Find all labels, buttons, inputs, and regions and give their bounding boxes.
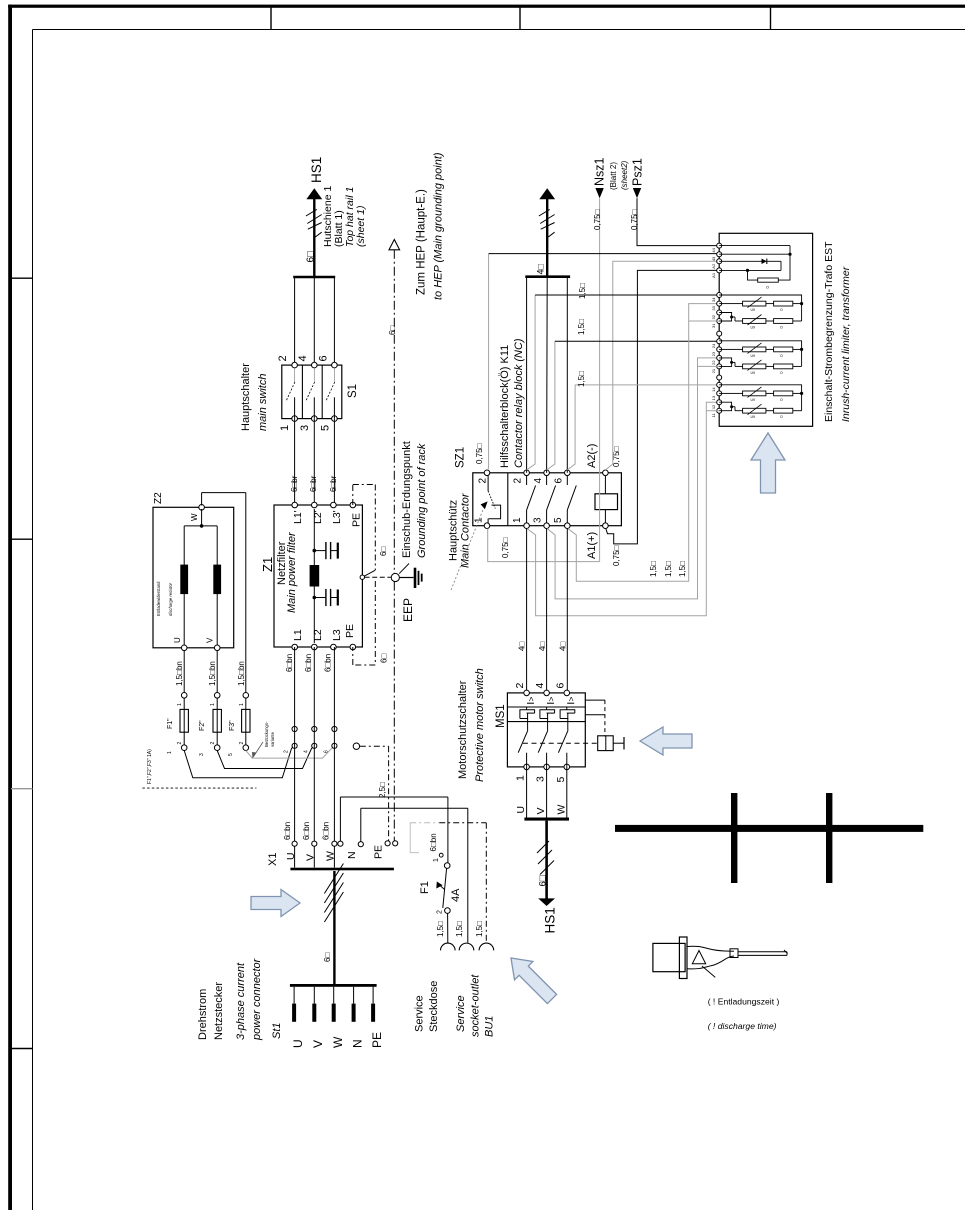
svg-text:2: 2 — [284, 750, 290, 753]
svg-text:4□: 4□ — [538, 642, 547, 651]
svg-text:U: U — [515, 806, 527, 814]
svg-text:U: U — [173, 637, 182, 643]
svg-text:Drehstrom: Drehstrom — [197, 989, 209, 1040]
svg-text:1,5□: 1,5□ — [664, 561, 673, 577]
svg-text:6□: 6□ — [379, 547, 388, 556]
svg-text:F1": F1" — [167, 718, 174, 729]
svg-text:>: > — [546, 697, 556, 702]
svg-text:6: 6 — [554, 478, 565, 484]
svg-text:44: 44 — [711, 247, 716, 252]
svg-text:22: 22 — [711, 360, 716, 365]
svg-text:2: 2 — [513, 478, 524, 484]
svg-text:5: 5 — [555, 777, 567, 783]
svg-text:3-phase current: 3-phase current — [235, 962, 247, 1040]
svg-text:Contactor relay block (NC): Contactor relay block (NC) — [513, 338, 525, 468]
svg-text:1,5□: 1,5□ — [577, 371, 586, 387]
svg-text:6□bn: 6□bn — [302, 822, 311, 840]
svg-text:12: 12 — [711, 404, 716, 409]
svg-text:St1: St1 — [271, 1022, 283, 1039]
svg-text:1,5□bn: 1,5□bn — [237, 661, 246, 686]
svg-text:A2(-): A2(-) — [586, 444, 598, 468]
svg-text:O: O — [766, 286, 769, 290]
svg-text:6□bn: 6□bn — [429, 833, 438, 851]
svg-text:Service: Service — [455, 995, 467, 1032]
svg-text:Hauptschütz: Hauptschütz — [448, 500, 460, 561]
svg-text:socket-outlet: socket-outlet — [470, 974, 482, 1037]
svg-text:SZ1: SZ1 — [455, 447, 467, 468]
svg-text:U9: U9 — [751, 354, 756, 358]
svg-text:A2: A2 — [711, 263, 716, 269]
svg-text:1,5□: 1,5□ — [475, 921, 484, 937]
svg-text:6: 6 — [324, 750, 330, 753]
svg-text:34: 34 — [711, 297, 716, 302]
svg-text:2: 2 — [239, 742, 245, 745]
svg-text:1: 1 — [210, 703, 216, 706]
svg-text:V: V — [305, 854, 317, 861]
svg-text:0,75□: 0,75□ — [612, 446, 621, 467]
svg-text:main switch: main switch — [257, 374, 269, 431]
svg-text:W: W — [190, 513, 199, 521]
svg-text:Steckdose: Steckdose — [428, 981, 440, 1032]
svg-text:S1: S1 — [347, 384, 359, 398]
svg-text:4: 4 — [533, 478, 544, 484]
svg-text:13: 13 — [711, 395, 716, 400]
svg-text:6□: 6□ — [538, 875, 549, 886]
svg-text:(sheet2): (sheet2) — [620, 160, 629, 190]
svg-text:F1",F2",F3" 1A): F1",F2",F3" 1A) — [147, 749, 153, 784]
svg-text:A1: A1 — [711, 272, 716, 278]
svg-text:O: O — [780, 371, 783, 375]
svg-text:>: > — [526, 697, 536, 702]
svg-text:2: 2 — [478, 478, 489, 484]
svg-text:A1(+): A1(+) — [586, 532, 598, 559]
svg-text:to HEP (Main grounding point): to HEP (Main grounding point) — [433, 152, 445, 300]
svg-text:V: V — [206, 637, 215, 643]
svg-text:N: N — [346, 851, 358, 859]
svg-text:2: 2 — [210, 742, 216, 745]
svg-text:4: 4 — [297, 355, 309, 361]
svg-text:Hauptschalter: Hauptschalter — [240, 363, 252, 431]
svg-text:PE: PE — [351, 513, 363, 527]
svg-text:33: 33 — [711, 305, 716, 310]
svg-text:31: 31 — [711, 323, 716, 328]
svg-text:U9: U9 — [751, 371, 756, 375]
svg-text:3: 3 — [535, 776, 547, 782]
svg-text:43: 43 — [711, 256, 716, 261]
svg-text:L3: L3 — [331, 629, 343, 641]
svg-text:0,75□: 0,75□ — [475, 443, 484, 464]
svg-text:Service: Service — [414, 995, 426, 1032]
svg-text:32: 32 — [711, 314, 716, 319]
svg-text:W: W — [331, 1036, 345, 1048]
svg-text:PE: PE — [344, 624, 356, 638]
svg-text:1: 1 — [515, 775, 527, 781]
svg-text:variante: variante — [270, 731, 275, 747]
svg-text:Netzstecker: Netzstecker — [213, 982, 225, 1040]
svg-text:L3': L3' — [331, 510, 343, 524]
svg-text:6□: 6□ — [380, 654, 389, 663]
svg-text:6□br: 6□br — [290, 475, 299, 492]
svg-text:N: N — [351, 1039, 365, 1048]
svg-text:0,75□: 0,75□ — [593, 209, 602, 230]
svg-text:Entladewiderstand: Entladewiderstand — [156, 581, 161, 616]
svg-text:1: 1 — [279, 425, 291, 431]
svg-text:Z2: Z2 — [153, 492, 164, 504]
svg-text:6□bn: 6□bn — [322, 822, 331, 840]
svg-text:2: 2 — [437, 910, 444, 914]
svg-text:6□bn: 6□bn — [283, 822, 292, 840]
svg-text:L1': L1' — [292, 510, 304, 524]
svg-text:Bestückungs-: Bestückungs- — [264, 721, 269, 747]
svg-text:3: 3 — [199, 753, 205, 756]
svg-text:Einschalt-Strombegrenzung-Traf: Einschalt-Strombegrenzung-Trafo EST — [823, 241, 835, 422]
svg-text:HS1: HS1 — [309, 157, 324, 183]
svg-text:O: O — [780, 308, 783, 312]
svg-text:BU1: BU1 — [484, 1016, 496, 1037]
svg-text:6□br: 6□br — [329, 475, 338, 492]
svg-text:PE: PE — [373, 845, 385, 859]
svg-text:1: 1 — [167, 751, 173, 754]
svg-text:O: O — [780, 326, 783, 330]
svg-text:1: 1 — [512, 517, 523, 523]
svg-text:2,5□: 2,5□ — [378, 782, 387, 798]
svg-text:5: 5 — [228, 753, 234, 756]
svg-text:U9: U9 — [751, 308, 756, 312]
svg-text:Protective motor switch: Protective motor switch — [474, 668, 486, 782]
svg-text:O: O — [780, 354, 783, 358]
svg-text:2: 2 — [514, 683, 526, 689]
svg-text:Main power filter: Main power filter — [286, 531, 298, 613]
svg-text:6□bn: 6□bn — [304, 654, 313, 672]
svg-text:1,5□: 1,5□ — [436, 921, 445, 937]
svg-text:>: > — [566, 697, 576, 702]
svg-text:(Blatt 2): (Blatt 2) — [609, 162, 618, 190]
svg-text:6: 6 — [555, 683, 567, 689]
svg-text:HS1: HS1 — [543, 907, 558, 933]
svg-text:U: U — [285, 852, 297, 860]
svg-text:PE: PE — [370, 1032, 384, 1048]
svg-text:1,5□: 1,5□ — [649, 561, 658, 577]
svg-text:6□: 6□ — [388, 326, 397, 335]
svg-text:( ! discharge time): ( ! discharge time) — [708, 1021, 777, 1031]
svg-text:W: W — [325, 851, 337, 861]
svg-text:V: V — [311, 1040, 325, 1048]
svg-text:F2": F2" — [199, 720, 206, 731]
svg-text:Grounding point of rack: Grounding point of rack — [416, 443, 428, 558]
svg-text:1,5□bn: 1,5□bn — [175, 661, 184, 686]
svg-text:1: 1 — [474, 517, 485, 523]
svg-text:Nsz1: Nsz1 — [593, 157, 607, 186]
svg-text:V: V — [535, 807, 547, 814]
svg-text:U9: U9 — [751, 326, 756, 330]
svg-text:power connector: power connector — [251, 957, 263, 1041]
svg-text:6□: 6□ — [306, 251, 317, 263]
svg-text:( ! Entladungszeit ): ( ! Entladungszeit ) — [708, 997, 780, 1007]
svg-text:1: 1 — [433, 858, 440, 862]
svg-text:1,5□: 1,5□ — [578, 283, 587, 299]
svg-text:1,5□: 1,5□ — [577, 319, 586, 335]
svg-text:3: 3 — [533, 517, 544, 523]
svg-text:6□: 6□ — [323, 953, 332, 962]
svg-text:O: O — [780, 398, 783, 402]
svg-text:0,75□: 0,75□ — [630, 209, 639, 230]
svg-text:F1: F1 — [419, 881, 431, 894]
svg-text:Zum HEP (Haupt-E.): Zum HEP (Haupt-E.) — [416, 189, 428, 295]
svg-text:6: 6 — [318, 355, 330, 361]
svg-text:5: 5 — [553, 517, 564, 523]
svg-text:4: 4 — [304, 750, 310, 753]
svg-text:1: 1 — [239, 703, 245, 706]
svg-text:U9: U9 — [751, 415, 756, 419]
svg-text:O: O — [780, 415, 783, 419]
svg-text:(sheet 1): (sheet 1) — [355, 206, 367, 247]
svg-text:discharge resistor: discharge resistor — [168, 582, 173, 616]
svg-text:MS1: MS1 — [495, 704, 507, 728]
svg-text:Z1: Z1 — [260, 557, 275, 572]
svg-text:21: 21 — [711, 368, 716, 373]
svg-text:4□: 4□ — [536, 263, 546, 274]
svg-text:F3": F3" — [229, 720, 236, 731]
svg-text:X1: X1 — [267, 853, 279, 866]
svg-text:L1: L1 — [292, 629, 304, 641]
svg-text:6□bn: 6□bn — [285, 654, 294, 672]
svg-text:1: 1 — [177, 703, 183, 706]
svg-text:24: 24 — [711, 343, 716, 348]
svg-text:Psz1: Psz1 — [631, 158, 645, 186]
svg-text:1,5□bn: 1,5□bn — [208, 661, 217, 686]
svg-text:4□: 4□ — [559, 642, 568, 651]
svg-text:Main Contactor: Main Contactor — [460, 492, 472, 568]
svg-text:Hilfsschalterblock(Ö) K11: Hilfsschalterblock(Ö) K11 — [499, 345, 511, 468]
svg-text:U: U — [291, 1039, 305, 1048]
svg-text:0,75□: 0,75□ — [501, 537, 510, 558]
svg-text:4: 4 — [534, 683, 546, 689]
svg-text:W: W — [556, 805, 568, 815]
svg-text:2: 2 — [177, 742, 183, 745]
svg-text:U9: U9 — [751, 398, 756, 402]
svg-text:6□bn: 6□bn — [324, 654, 333, 672]
svg-text:6□br: 6□br — [309, 475, 318, 492]
svg-text:4□: 4□ — [518, 642, 527, 651]
svg-text:EEP: EEP — [401, 598, 415, 622]
svg-text:Einschub-Erdungspunkt: Einschub-Erdungspunkt — [401, 441, 413, 558]
svg-text:14: 14 — [711, 387, 716, 392]
svg-text:1,5□: 1,5□ — [455, 921, 464, 937]
svg-text:3: 3 — [299, 425, 311, 431]
svg-text:Motorschutzschalter: Motorschutzschalter — [457, 680, 469, 779]
svg-text:4A: 4A — [450, 888, 462, 902]
svg-text:0,75□: 0,75□ — [612, 545, 621, 566]
svg-text:23: 23 — [711, 351, 716, 356]
svg-text:1,5□: 1,5□ — [678, 561, 687, 577]
svg-text:5: 5 — [320, 425, 332, 431]
svg-text:2: 2 — [277, 355, 289, 361]
svg-text:Inrush-current limiter, transf: Inrush-current limiter, transformer — [840, 266, 852, 422]
